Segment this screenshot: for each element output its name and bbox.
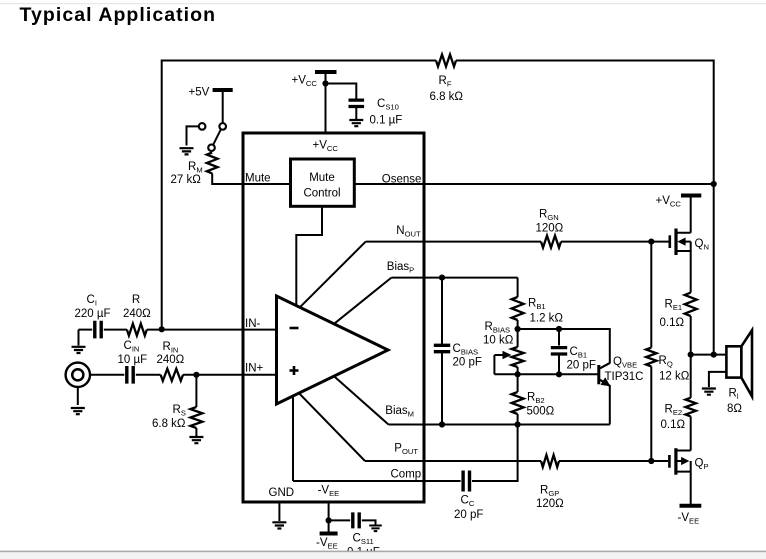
switch S1 pole contact <box>208 144 215 151</box>
svg-text:TIP31C: TIP31C <box>605 371 644 383</box>
wire node to QVBE collector <box>518 329 610 364</box>
svg-text:Mute: Mute <box>245 173 271 185</box>
wire NOUT diagonal <box>300 242 366 308</box>
wire CI to R <box>104 329 127 331</box>
ground below RS <box>189 437 203 443</box>
svg-text:1.2 kΩ: 1.2 kΩ <box>530 313 564 325</box>
wire BiasM rail <box>389 424 610 426</box>
wire node to CS11 <box>329 519 351 521</box>
ground at switch <box>180 148 194 154</box>
svg-text:0.1 µF: 0.1 µF <box>370 115 403 127</box>
wire RGN to QN gate <box>561 241 669 243</box>
wire QVBE emitter to BiasM rail <box>609 385 611 425</box>
capacitor CIN <box>127 366 133 384</box>
wire NOUT to RGN <box>366 241 541 243</box>
power +VCC bar top <box>315 70 337 74</box>
switch S1 left contact <box>199 123 206 130</box>
svg-text:12 kΩ: 12 kΩ <box>659 371 690 383</box>
svg-text:20 pF: 20 pF <box>454 509 483 521</box>
svg-text:27 kΩ: 27 kΩ <box>171 174 202 186</box>
node IN- feedback junction <box>159 326 165 332</box>
resistor RGN <box>541 236 561 248</box>
resistor RIN <box>161 369 183 381</box>
svg-text:240Ω: 240Ω <box>157 354 185 366</box>
wire wiper to bottom node <box>493 355 495 374</box>
wire CB1 top lead <box>558 329 560 346</box>
svg-text:10 µF: 10 µF <box>118 354 148 366</box>
svg-text:+5V: +5V <box>189 87 210 99</box>
power -VEE bar bottom <box>320 532 338 536</box>
wire RGP to QP gate <box>559 460 668 462</box>
wire RS to ground <box>195 428 197 436</box>
svg-text:Typical Application: Typical Application <box>20 4 217 26</box>
ground below IC <box>272 522 286 528</box>
resistor R <box>127 324 147 336</box>
node output at RE1 <box>688 352 694 358</box>
svg-text:IN+: IN+ <box>245 363 264 375</box>
wire BiasP diagonal <box>334 278 391 324</box>
node CBIAS bottom junction <box>439 421 445 427</box>
wire RIN to IN+ <box>183 374 277 376</box>
node CBIAS top junction <box>439 275 445 281</box>
capacitor CS11 <box>353 512 359 528</box>
switch S1 blade <box>213 130 220 145</box>
wire RM to Mute pin <box>212 173 290 184</box>
ground below jack <box>71 408 85 414</box>
capacitor CC <box>463 471 469 492</box>
wire CIN to RIN <box>136 374 161 376</box>
wire +VCC to IC top <box>325 72 327 133</box>
wire ground to CI <box>79 329 93 331</box>
node QP gate junction <box>648 458 654 464</box>
wire CB1 bottom lead <box>558 355 560 374</box>
op-amp minus input mark <box>290 327 299 330</box>
wire Comp to CC <box>293 480 461 482</box>
wire +VCC to CS10 <box>326 84 357 100</box>
RCA jack J1 <box>66 363 90 387</box>
wire CBIAS to BiasM rail <box>441 353 443 425</box>
svg-text:20 pF: 20 pF <box>453 357 482 369</box>
capacitor CBIAS <box>434 345 450 351</box>
wire speaker return to ground <box>709 372 727 387</box>
wire CC up to BiasM node <box>472 425 518 482</box>
svg-text:120Ω: 120Ω <box>536 223 564 235</box>
wire QP source to -VEE <box>690 472 692 505</box>
op-amp U1 triangle <box>277 296 389 404</box>
potentiometer RBIAS wiper arrow <box>494 354 503 356</box>
op-amp IC block outline <box>243 133 424 502</box>
wire BiasP to RB1 <box>517 278 519 297</box>
resistor RS <box>190 407 202 428</box>
transistor QVBE TIP31C <box>597 365 600 384</box>
resistor RQ <box>646 348 656 367</box>
svg-text:Control: Control <box>303 188 340 200</box>
node output junction on right rail <box>711 352 717 358</box>
power +VCC bar right <box>681 194 701 198</box>
capacitor CB1 <box>551 348 567 354</box>
wire GND pin to ground <box>278 502 280 521</box>
resistor RE1 <box>685 293 697 316</box>
wire node to RS <box>195 375 197 407</box>
transistor QP MOSFET <box>668 455 671 468</box>
node -VEE CS11 junction <box>326 517 332 523</box>
svg-text:GND: GND <box>269 487 295 499</box>
wire node to RB2 <box>517 374 519 392</box>
svg-text:Mute: Mute <box>309 172 335 184</box>
wire POUT diagonal <box>299 393 365 461</box>
power +5V bar <box>213 88 233 92</box>
wire QN source to RE1 <box>690 251 692 293</box>
node QN gate junction <box>648 239 654 245</box>
svg-text:0.1Ω: 0.1Ω <box>661 419 686 431</box>
wire RBIAS to bottom node <box>517 367 519 374</box>
wire Osense to right rail <box>354 183 713 185</box>
node RB2 bottom junction <box>515 421 521 427</box>
wire RF to right rail down to output node <box>456 61 714 355</box>
wire R to IN- <box>147 329 277 331</box>
wire mute control to op-amp <box>296 206 322 305</box>
speaker RL <box>726 346 741 377</box>
switch S1 right contact <box>219 123 226 130</box>
node IN+ junction <box>193 372 199 378</box>
op-amp plus input mark <box>290 366 299 375</box>
svg-text:240Ω: 240Ω <box>123 308 151 320</box>
svg-text:6.8 kΩ: 6.8 kΩ <box>430 91 464 103</box>
node CB1 bottom <box>556 371 562 377</box>
ground at CI <box>72 347 86 353</box>
wire +VCC to QN drain <box>690 196 692 233</box>
ground below CS10 <box>349 120 363 126</box>
wire CS10 to ground <box>355 107 357 119</box>
wire BiasP to RB1 <box>391 277 517 279</box>
svg-text:220 µF: 220 µF <box>75 308 111 320</box>
node RB1 bottom <box>515 326 521 332</box>
svg-text:IN-: IN- <box>245 318 261 330</box>
resistor RE2 <box>686 398 696 417</box>
svg-text:500Ω: 500Ω <box>527 406 555 418</box>
node +VCC junction <box>322 80 328 86</box>
node Osense junction <box>711 181 717 187</box>
wire node to RBIAS <box>517 329 519 347</box>
svg-text:R: R <box>132 294 140 306</box>
node RBIAS bottom <box>515 371 521 377</box>
node CB1 top <box>556 326 562 332</box>
svg-text:8Ω: 8Ω <box>727 403 742 415</box>
wire BiasP node down to CBIAS <box>441 278 443 345</box>
wire +5V to switch <box>222 90 224 123</box>
svg-text:10 kΩ: 10 kΩ <box>483 335 514 347</box>
resistor RF <box>436 55 456 67</box>
wire RE2 to QP drain <box>690 416 692 450</box>
resistor RB2 <box>512 392 524 414</box>
capacitor CS10 <box>349 100 365 106</box>
wire RB1 to node <box>517 320 519 329</box>
transistor QN MOSFET <box>668 235 671 248</box>
wire feedback left rail and top to RF <box>162 61 436 330</box>
wire CI left to ground <box>78 330 80 346</box>
wire switch to ground <box>187 126 199 145</box>
capacitor CI <box>95 321 101 339</box>
wire jack to CIN <box>90 374 124 376</box>
wire jack to ground <box>77 387 79 405</box>
wire RE1 to output node <box>690 316 692 355</box>
wire output node to RE2 <box>690 355 692 398</box>
svg-text:0.1Ω: 0.1Ω <box>660 317 685 329</box>
svg-text:Comp: Comp <box>391 469 422 481</box>
resistor RM <box>207 153 218 174</box>
wire POUT to RGP <box>365 460 541 462</box>
svg-text:120Ω: 120Ω <box>536 498 564 510</box>
ground below speaker <box>702 389 716 395</box>
wire CS11 to ground <box>362 520 376 524</box>
wire QN gate rail down to RQ <box>650 242 652 348</box>
svg-text:6.8 kΩ: 6.8 kΩ <box>152 418 186 430</box>
resistor RGP <box>541 455 559 467</box>
wire output node to speaker <box>691 354 727 356</box>
ground right of CS11 <box>369 526 382 532</box>
mute control box U-MUTE <box>291 159 355 206</box>
potentiometer RBIAS <box>512 347 524 367</box>
wire -VEE pin down <box>328 502 330 533</box>
wire Comp vertical from op-amp <box>292 397 294 482</box>
resistor RB1 <box>512 297 524 320</box>
wire BiasM diagonal <box>334 376 389 424</box>
wire base line to QVBE <box>494 373 597 375</box>
wire RB2 to BiasM rail <box>517 414 519 425</box>
svg-text:20 pF: 20 pF <box>567 360 596 372</box>
wire RQ down to QP gate <box>650 366 652 461</box>
power -VEE bar right <box>680 504 702 508</box>
